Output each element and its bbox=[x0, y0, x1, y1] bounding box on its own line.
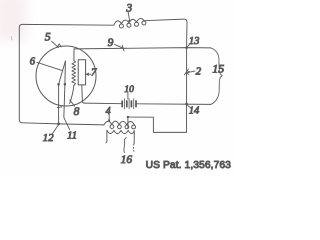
wire right vertical 13-14 and step bbox=[128, 48, 187, 133]
leader 11 bbox=[64, 118, 70, 130]
leader 4 bbox=[108, 114, 110, 120]
node 13 junction dot bbox=[185, 46, 188, 49]
secondary left foot bbox=[106, 142, 107, 143]
junction dot node 12 bbox=[57, 123, 60, 126]
grid G8 lead top bbox=[73, 49, 75, 61]
svg-text:13: 13 bbox=[189, 36, 200, 47]
tube envelope U5 bbox=[36, 46, 96, 106]
grid lead bottom bbox=[70, 86, 74, 104]
svg-text:US Pat. 1,356,763: US Pat. 1,356,763 bbox=[146, 160, 232, 171]
leader 16 wavy bbox=[124, 137, 126, 152]
leader 6 bbox=[37, 62, 62, 70]
leader 4 arrowhead bbox=[108, 120, 111, 123]
coil tap stub bbox=[127, 117, 129, 128]
leader 12 bbox=[52, 125, 58, 134]
svg-text:6: 6 bbox=[30, 56, 36, 67]
tube tip nub bbox=[57, 44, 61, 47]
svg-text:5: 5 bbox=[45, 30, 51, 44]
svg-text:9: 9 bbox=[108, 37, 114, 49]
svg-text:15: 15 bbox=[212, 62, 224, 76]
leader 3 bbox=[128, 12, 129, 19]
tick on filament lead bbox=[57, 106, 62, 109]
leader 8 bbox=[70, 100, 75, 106]
transformer T16 secondary bbox=[107, 130, 134, 143]
leader 14 bbox=[187, 105, 189, 107]
L3 loops bbox=[119, 24, 123, 28]
T4 primary loops bbox=[110, 125, 114, 129]
wire 9 grid lead horizontal bbox=[74, 48, 211, 49]
inductor L3 bbox=[114, 19, 145, 26]
plate lead down and battery wire bbox=[82, 85, 122, 104]
svg-text:16: 16 bbox=[121, 154, 133, 166]
grid zigzag bbox=[72, 60, 76, 85]
leader 10 bbox=[127, 93, 129, 99]
filament dot left bbox=[57, 83, 60, 86]
filament right leg bbox=[64, 61, 66, 117]
svg-text:7: 7 bbox=[91, 66, 97, 78]
node 14 junction dot bbox=[185, 103, 188, 106]
leader 13 bbox=[187, 44, 190, 47]
svg-text:11: 11 bbox=[67, 130, 77, 142]
brace 15 bbox=[211, 48, 223, 105]
leader 5 bbox=[52, 41, 59, 47]
battery wire right bbox=[137, 103, 211, 106]
filament dot right bbox=[64, 83, 67, 86]
svg-text:10: 10 bbox=[124, 85, 134, 95]
speck bbox=[11, 37, 14, 41]
plate P7 bbox=[78, 60, 85, 85]
secondary right foot bbox=[133, 143, 134, 145]
filament left leg bbox=[59, 61, 66, 124]
tick on wire 9 bbox=[122, 45, 124, 50]
svg-text:8: 8 bbox=[74, 106, 80, 118]
secondary end specks bbox=[132, 147, 135, 151]
leader 3 dot bbox=[128, 20, 130, 22]
svg-text:4: 4 bbox=[106, 106, 111, 117]
wire top right bbox=[144, 19, 187, 48]
mark 2 dash on wire bbox=[184, 69, 188, 75]
transformer T4 primary bbox=[104, 121, 135, 125]
leader 2 arrow bbox=[187, 71, 195, 75]
leader 9 bbox=[115, 44, 123, 47]
wire outer left loop top bbox=[19, 24, 114, 125]
leader 7 arrow bbox=[86, 73, 90, 75]
coil tap dot bbox=[127, 116, 129, 118]
battery B10 bars bbox=[121, 101, 123, 107]
svg-text:2: 2 bbox=[196, 65, 202, 77]
svg-text:14: 14 bbox=[189, 105, 200, 116]
svg-text:3: 3 bbox=[125, 3, 132, 15]
